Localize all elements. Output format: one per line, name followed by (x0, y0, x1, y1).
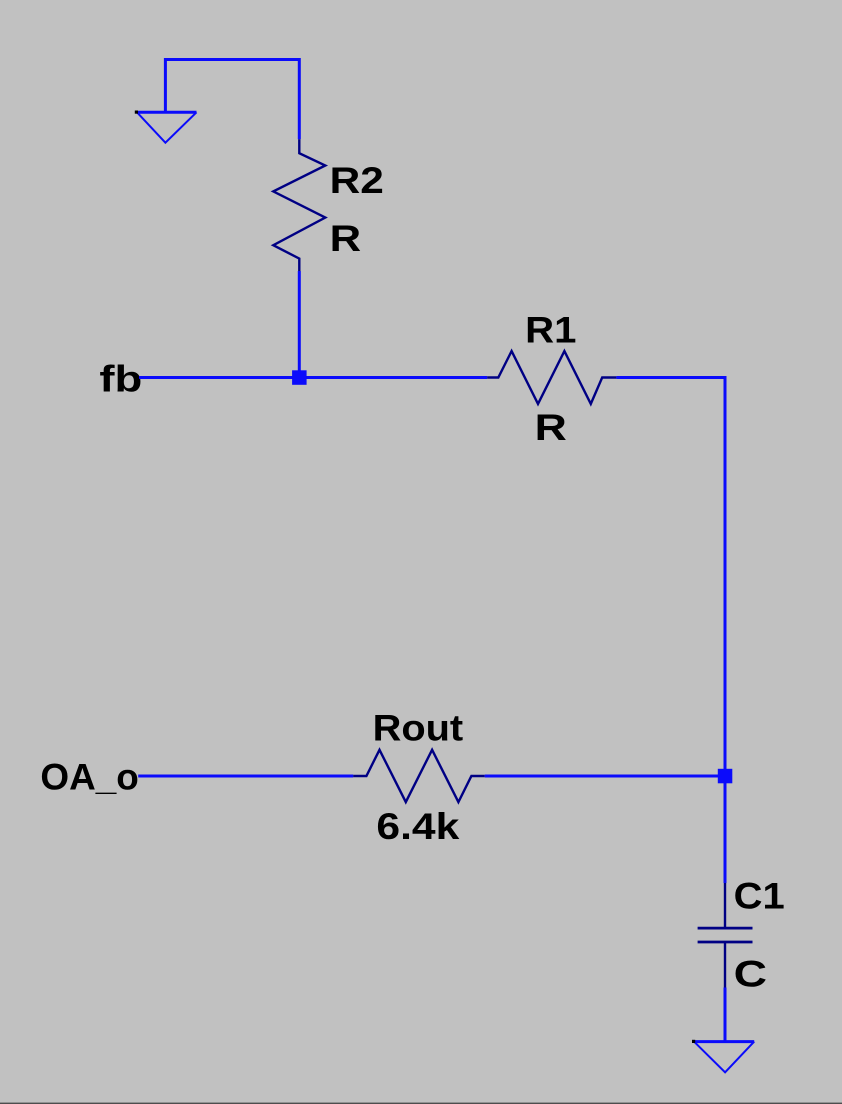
ground (bottom) (692, 1040, 754, 1073)
junction: Rout / R1 / C1 (718, 769, 733, 784)
wire: Rout right pin to output junction (485, 775, 725, 778)
wire: C1 bottom to ground (724, 988, 727, 1042)
wire: R2 bottom to fb junction (298, 271, 301, 378)
svg-text:6.4k: 6.4k (376, 806, 459, 847)
bottom window border (0, 1103, 842, 1104)
svg-text:R: R (330, 218, 362, 259)
svg-text:C: C (734, 954, 767, 995)
svg-text:R2: R2 (330, 160, 384, 201)
svg-text:R1: R1 (525, 310, 576, 351)
ground (top-left) (135, 111, 197, 143)
wire: junction down to C1 top (724, 776, 727, 883)
svg-text:Rout: Rout (373, 707, 464, 748)
wire: R1 right pin over and down right rail (616, 378, 725, 777)
resistor Rout (353, 750, 485, 802)
wire: top-left ground stub up and over to R2 top (165, 60, 299, 140)
wire: fb across to R1 left pin (139, 376, 487, 379)
svg-text:OA_o: OA_o (40, 757, 138, 798)
svg-text:R: R (535, 407, 567, 448)
resistor R1 (487, 351, 616, 404)
wire: OA_o to Rout left pin (138, 775, 353, 778)
capacitor C1 (698, 883, 753, 988)
resistor R2 (273, 139, 325, 271)
svg-text:C1: C1 (734, 876, 785, 917)
junction: fb / R2 / R1 (292, 370, 307, 385)
svg-text:fb: fb (99, 359, 142, 400)
